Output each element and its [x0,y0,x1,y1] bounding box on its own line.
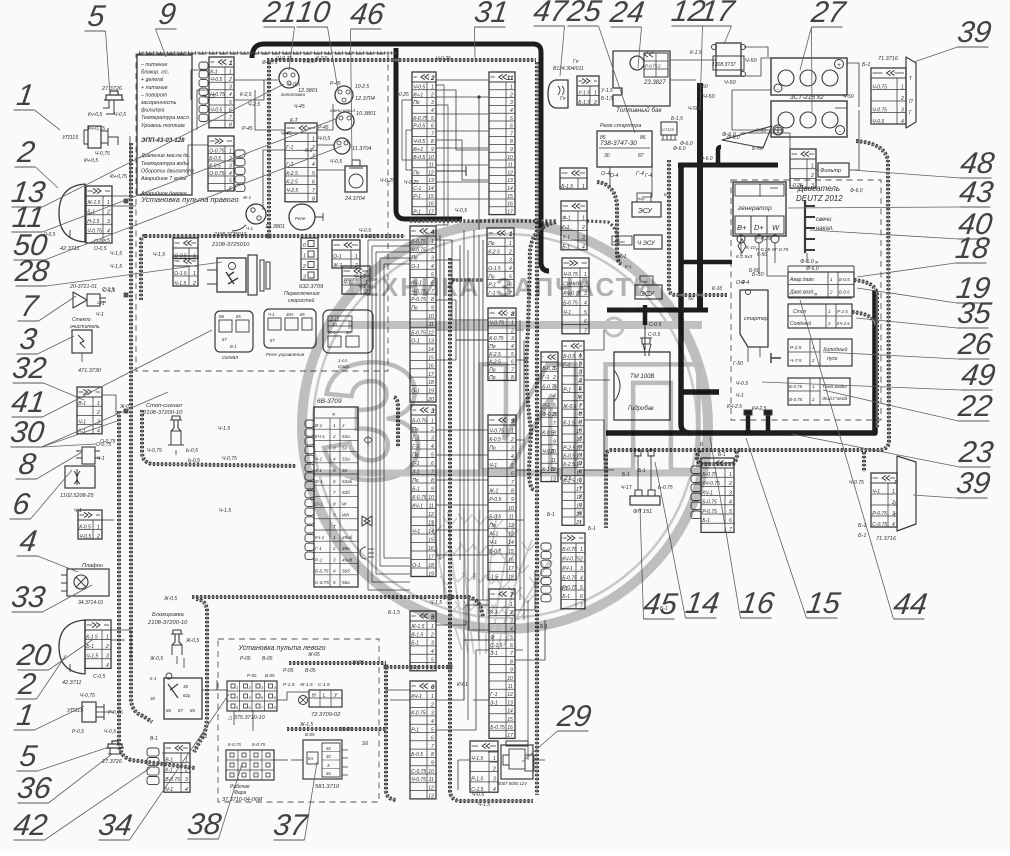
svg-text:Стоп-сигнал: Стоп-сигнал [146,403,183,409]
svg-text:17: 17 [428,209,434,215]
svg-text:У-1,5: У-1,5 [601,88,613,94]
svg-text:Ф-1: Ф-1 [562,216,571,222]
svg-text:2: 2 [728,481,732,487]
callout label 22 at (974,416) [823,390,995,423]
connector X11 [489,72,515,215]
svg-text:18: 18 [508,575,514,581]
oil pressure sensors BP18 [788,260,854,297]
svg-text:15: 15 [428,537,434,543]
callout label 8 at (26,474) [16,448,83,481]
harness inner bottom box [386,667,450,800]
svg-text:18: 18 [428,380,434,386]
ignition lock SA34 [150,673,202,719]
starter aux relay ST125 [661,122,693,147]
svg-text:Авар.давл.: Авар.давл. [789,277,815,283]
svg-text:30: 30 [8,416,46,449]
svg-text:20: 20 [427,397,434,403]
svg-text:3: 3 [333,557,336,562]
svg-text:2: 2 [430,702,434,708]
svg-text:Давл.возд.: Давл.возд. [789,290,815,296]
svg-text:7: 7 [431,131,434,137]
svg-text:6: 6 [431,684,435,691]
svg-text:11: 11 [429,163,434,169]
svg-text:Б-50: Б-50 [749,268,760,274]
svg-text:К-1: К-1 [305,148,313,154]
svg-text:Г-1: Г-1 [286,145,293,151]
svg-text:49: 49 [959,359,997,392]
connector fuel sender [577,76,599,106]
connector X42 lamp [147,743,190,793]
svg-text:2: 2 [192,281,196,287]
callout label 28 at (31,281) [12,255,222,288]
svg-text:71.3716: 71.3716 [876,536,897,542]
svg-text:В6: В6 [219,314,225,319]
svg-text:Кч-1: Кч-1 [413,147,423,153]
svg-text:8: 8 [510,139,513,145]
svg-text:19: 19 [428,389,434,395]
svg-text:Ч-0,5: Ч-0,5 [114,112,126,118]
callout label 50 at (29,255) [11,146,342,262]
svg-text:К-2,5: К-2,5 [316,56,328,62]
svg-text:3: 3 [431,641,434,647]
svg-text:Ж-1: Ж-1 [242,195,252,200]
harness stop signal [142,410,296,466]
svg-text:4: 4 [580,575,583,581]
svg-text:Кч-1: Кч-1 [315,535,325,540]
svg-text:1308.3737: 1308.3737 [712,62,736,68]
callout label 14 at (701,613) [655,462,721,620]
svg-text:Б-0.75: Б-0.75 [315,569,329,574]
svg-text:Б-0.5: Б-0.5 [209,156,221,162]
svg-text:Ч-0,5: Ч-0,5 [410,218,422,224]
svg-text:1102.5208-25: 1102.5208-25 [60,493,94,499]
svg-text:8: 8 [431,478,434,484]
svg-text:Ч-1,5: Ч-1,5 [153,252,165,258]
connector XP50 12.3801 [232,195,285,231]
svg-text:Р-45: Р-45 [242,126,253,132]
svg-text:10: 10 [428,769,434,775]
svg-text:13: 13 [507,178,513,184]
svg-text:Р-05: Р-05 [240,656,251,662]
svg-text:КЧ-1: КЧ-1 [457,682,468,688]
svg-text:27: 27 [808,0,848,29]
svg-text:4: 4 [97,429,100,435]
svg-text:Ч-50: Ч-50 [724,80,737,86]
svg-text:С-1.5: С-1.5 [318,682,330,688]
svg-text:1: 1 [509,241,512,247]
svg-text:2: 2 [184,767,188,773]
connector filter [790,149,816,189]
svg-text:3: 3 [107,219,110,225]
horn H36 27.3726 bottom [101,741,124,765]
svg-text:В-1: В-1 [78,401,86,407]
harness sensor hook 1 [854,280,877,428]
callout label 40 at (974,234) [810,208,995,241]
callout label 6 at (20,514) [10,470,73,521]
harness junction 7 [267,234,271,238]
svg-text:△ 375.3710-10: △ 375.3710-10 [227,715,266,721]
svg-text:Солёный: Солёный [790,320,811,327]
svg-text:5: 5 [580,585,583,591]
svg-text:1: 1 [580,547,583,553]
svg-text:свечи: свечи [816,217,832,223]
harness wiggle S [527,222,556,490]
cold start unit [771,339,852,366]
svg-text:КЧ-0.75: КЧ-0.75 [562,557,580,563]
svg-text:10.3801: 10.3801 [356,111,376,117]
callout label 26 at (974,354) [823,328,995,361]
svg-text:46: 46 [348,0,386,31]
connector engine harness [691,458,734,533]
svg-text:КЧ-2.5: КЧ-2.5 [727,404,742,410]
svg-text:Р-0,75: Р-0,75 [108,710,123,716]
svg-text:5: 5 [431,727,434,733]
svg-text:Ч-50: Ч-50 [843,94,854,100]
harness right console top [139,52,397,54]
svg-text:Ж-05: Ж-05 [307,652,320,658]
svg-text:Блокировка: Блокировка [152,612,184,618]
svg-text:С-0.75: С-0.75 [315,580,329,585]
svg-text:15: 15 [804,587,842,620]
svg-text:Р-05: Р-05 [247,673,257,678]
svg-text:8: 8 [229,123,232,129]
aux connector pair A [332,240,360,269]
svg-text:Ж-1.5: Ж-1.5 [410,624,424,630]
svg-text:17: 17 [507,209,513,215]
svg-text:Р-0.5: Р-0.5 [413,124,425,130]
svg-text:30: 30 [604,153,610,159]
svg-text:СТ125: СТ125 [662,127,675,132]
svg-text:2: 2 [430,92,434,98]
svg-text:3: 3 [229,85,232,91]
svg-text:12: 12 [428,512,434,518]
svg-text:ЭСУ: ЭСУ [638,208,654,215]
svg-text:0: 0 [303,243,306,249]
connector right column [285,123,317,203]
svg-text:6: 6 [431,461,434,467]
svg-text:19: 19 [428,571,434,577]
svg-text:Ч-0.75: Ч-0.75 [87,228,102,234]
svg-text:Г-4: Г-4 [645,173,652,179]
svg-text:15: 15 [508,549,514,555]
svg-text:23: 23 [956,436,995,469]
svg-text:Ч-7.5: Ч-7.5 [790,358,802,364]
svg-text:1: 1 [236,685,238,690]
svg-text:2: 2 [105,644,109,650]
right console assembly boundary (Установка пульта правого) [136,54,388,371]
svg-text:Кч-1: Кч-1 [413,92,423,98]
svg-text:2: 2 [827,321,831,326]
svg-text:2: 2 [228,77,232,83]
wire generator bus V2 [681,164,690,433]
harness junction 6 [384,665,388,669]
svg-text:2: 2 [430,427,434,433]
svg-text:О-4: О-4 [610,173,619,179]
callout label 17 at (716,21) [698,0,737,44]
wire labels set [44,56,863,808]
svg-text:Р-1.5: Р-1.5 [283,682,295,688]
wires X5 X6 links [436,605,489,730]
svg-text:28: 28 [12,255,51,288]
svg-text:12.3801: 12.3801 [298,88,318,94]
harness junction 2 [124,293,128,297]
svg-text:К4-2,5: К4-2,5 [752,406,767,412]
svg-text:Ч-0,25: Ч-0,25 [404,180,419,186]
svg-text:D+: D+ [754,223,764,232]
svg-text:5: 5 [107,238,110,244]
svg-text:О-4: О-4 [741,280,750,286]
svg-text:Уровень топлива: Уровень топлива [141,123,185,129]
svg-text:10: 10 [507,676,513,682]
svg-text:87: 87 [270,338,275,343]
svg-text:Б-1: Б-1 [411,666,419,672]
svg-text:4: 4 [431,444,434,450]
svg-text:Кл: Кл [308,756,314,761]
svg-text:10-2,5: 10-2,5 [355,84,369,90]
svg-text:30: 30 [326,754,331,759]
svg-text:Б-1: Б-1 [718,452,726,458]
svg-text:6: 6 [510,643,513,649]
svg-text:Ж-0,5: Ж-0,5 [163,596,177,602]
svg-text:42: 42 [11,809,49,842]
svg-text:По: По [488,241,495,247]
switch block 72.3709-02 [283,682,342,718]
harness column A [450,258,533,801]
svg-text:85: 85 [190,708,196,713]
harness 39 bottom stub [862,452,866,472]
svg-text:3: 3 [431,100,434,106]
connector X7 [489,589,515,739]
fuel pump unit FP151 [621,450,673,515]
svg-text:1: 1 [312,136,315,142]
svg-text:11: 11 [429,503,434,509]
svg-text:Р-45: Р-45 [330,81,341,87]
connector X1 [487,228,514,297]
generator G1 [733,182,789,260]
svg-text:31: 31 [472,0,510,29]
svg-text:В-1.5: В-1.5 [411,632,423,638]
connector X4 [410,226,436,403]
svg-text:2: 2 [811,397,815,402]
svg-text:35: 35 [955,297,993,330]
svg-text:ТЕХНИКА: ТЕХНИКА [344,272,481,302]
svg-text:сигнал: сигнал [222,355,238,361]
svg-text:О-1: О-1 [333,254,342,260]
svg-text:Установка пульта левого: Установка пульта левого [237,645,325,652]
svg-text:11: 11 [509,514,514,520]
starter M [736,272,768,347]
svg-text:С-0.75: С-0.75 [872,522,887,528]
svg-text:Б-0.75: Б-0.75 [562,575,577,581]
svg-text:свечи накал.: свечи накал. [330,108,356,113]
callout label 39 at (973,42) [914,16,994,62]
callout label 19 at (972,298) [857,272,993,305]
svg-text:4: 4 [312,162,315,168]
svg-text:Б-0.5: Б-0.5 [839,277,850,282]
svg-text:2: 2 [508,249,512,255]
control unit U9 EPP-43-03-128 [137,55,194,197]
callout label 4 at (27,551) [17,525,79,572]
harness top band right console [141,236,145,300]
svg-text:Ч-0.5: Ч-0.5 [210,77,222,83]
svg-text:+ питание: + питание [141,85,168,91]
connector instrument feed [199,57,234,129]
harness sensor hook 2 [852,312,875,325]
wire stop signal drop [176,100,538,455]
svg-text:87: 87 [638,153,644,159]
panel 39 top trapezoid [862,56,916,128]
wires between X2 and X11 [436,80,488,199]
callout label 5 at (95,26) [85,0,111,95]
svg-text:скоростей: скоростей [288,297,314,304]
svg-text:87: 87 [222,337,227,342]
svg-text:10: 10 [507,155,513,161]
svg-text:Ч-1: Ч-1 [74,508,82,514]
svg-text:Ч-1.5: Ч-1.5 [478,802,490,808]
svg-text:Ч-1.5: Ч-1.5 [218,426,230,432]
svg-text:12: 12 [507,692,513,698]
connector X10 letters [562,341,584,526]
svg-text:Ч-0.5: Ч-0.5 [736,381,748,387]
connector X9 [488,415,516,581]
svg-text:30А: 30А [286,312,294,317]
svg-text:1: 1 [106,634,109,640]
svg-text:3: 3 [811,183,814,189]
svg-text:85: 85 [300,312,305,317]
svg-text:43: 43 [957,176,995,209]
svg-text:Ь-0,5: Ь-0,5 [188,458,200,464]
svg-text:2: 2 [657,64,661,69]
harness column B [535,62,539,795]
svg-text:О-4: О-4 [601,171,610,177]
svg-text:2: 2 [811,358,815,363]
callout label 25 at (583,21) [564,0,635,133]
svg-text:21: 21 [260,0,299,29]
svg-text:56: 56 [326,746,331,751]
hydraulic tank TM100 [614,332,670,420]
svg-text:2: 2 [900,96,904,102]
svg-text:В124.304/011: В124.304/011 [553,66,584,72]
wire X2 row12 test point [436,166,466,176]
svg-text:11: 11 [508,684,513,690]
callout label 31 at (490,22) [472,0,510,58]
wire bundle right of X9 [515,320,528,760]
svg-text:22: 22 [955,390,994,423]
wires engine area [610,47,859,362]
svg-text:К-0.75: К-0.75 [228,742,241,747]
svg-text:Ч-1.5: Ч-1.5 [219,508,231,514]
switch SB blokirovka 2108-37200-10 [147,612,199,662]
svg-text:Ч-1.5: Ч-1.5 [86,654,98,660]
svg-text:К-1: К-1 [165,767,173,773]
svg-text:48: 48 [958,147,996,180]
svg-text:17: 17 [428,372,434,378]
svg-text:Гп: Гп [573,59,579,65]
svg-text:1: 1 [355,254,358,260]
svg-text:Ж-0,5: Ж-0,5 [149,656,163,662]
svg-text:L: L [323,693,326,699]
svg-text:56а: 56а [342,580,350,585]
connector instrument 2 [208,136,245,192]
svg-text:Б-0.5: Б-0.5 [489,514,501,520]
svg-text:Б-1,5: Б-1,5 [671,116,683,122]
svg-text:5007 8000 12V: 5007 8000 12V [498,781,528,786]
svg-text:Ж-0,5: Ж-0,5 [119,404,133,410]
svg-text:2: 2 [430,632,434,638]
wire starter positive V1 [697,83,703,312]
svg-text:Топливный бак: Топливный бак [616,106,663,114]
svg-text:4: 4 [493,787,496,793]
battery GB2 3ST-215 [771,94,847,137]
callout label 44 at (909,614) [800,300,929,621]
svg-text:15: 15 [507,717,513,723]
svg-text:3: 3 [493,777,496,783]
svg-text:Ч-0,5: Ч-0,5 [288,82,300,88]
wire starter solenoid feed [681,260,732,265]
harness inner loop top [267,58,536,62]
svg-text:В-05: В-05 [305,732,315,737]
svg-text:О-1: О-1 [412,563,421,569]
svg-text:14: 14 [507,709,513,715]
svg-text:Температура масл.: Температура масл. [141,115,190,121]
gauge P2 42.3711 top [59,184,107,252]
svg-text:Ч-0.5: Ч-0.5 [79,534,91,540]
svg-text:20-3721-01: 20-3721-01 [69,284,97,290]
svg-text:5: 5 [729,509,732,515]
ESU unit 1 [632,192,671,217]
svg-text:Ч-50: Ч-50 [697,84,708,90]
svg-text:2: 2 [810,173,814,179]
connector panel 39 top [871,68,913,125]
svg-text:С-1: С-1 [413,186,421,192]
svg-text:25: 25 [564,0,603,28]
svg-text:Ч-1: Ч-1 [268,312,275,317]
svg-text:10: 10 [428,495,434,501]
svg-text:-0.25: -0.25 [791,183,803,189]
svg-text:Ч-0,75: Ч-0,75 [95,151,110,157]
svg-text:56: 56 [326,771,331,776]
svg-text:Р-2.5: Р-2.5 [790,345,802,351]
svg-text:1: 1 [97,524,100,530]
connector XP51 pump [289,204,323,230]
svg-text:Г-1: Г-1 [490,692,497,698]
svg-text:1: 1 [97,401,100,407]
svg-text:3: 3 [729,490,732,496]
svg-text:Обороты двигателя: Обороты двигателя [141,168,194,174]
svg-text:Ч-0,5: Ч-0,5 [366,234,378,240]
svg-text:2: 2 [579,557,583,563]
svg-text:Ч-0,5: Ч-0,5 [455,208,467,214]
svg-text:К-0.75: К-0.75 [411,711,426,717]
wire bundle left of X4 [368,240,410,590]
callout label 32 at (28,378) [10,352,84,400]
svg-text:2: 2 [509,92,513,98]
harness junction 4 [448,595,452,599]
svg-text:11: 11 [507,75,514,82]
callout label 7 at (28,316) [18,290,77,323]
svg-text:2: 2 [430,75,435,82]
svg-text:14: 14 [507,186,513,192]
svg-text:Ч-0,75: Ч-0,75 [222,456,237,462]
wire main lower bus [606,290,875,433]
washer pump M8 [76,442,112,464]
svg-text:Р-45: Р-45 [318,125,329,131]
svg-text:Ч-0.5: Ч-0.5 [872,119,884,125]
svg-text:8: 8 [431,752,434,758]
svg-text:10: 10 [294,0,332,29]
power socket unit X29 [498,741,534,786]
icon turn signals [362,516,372,526]
